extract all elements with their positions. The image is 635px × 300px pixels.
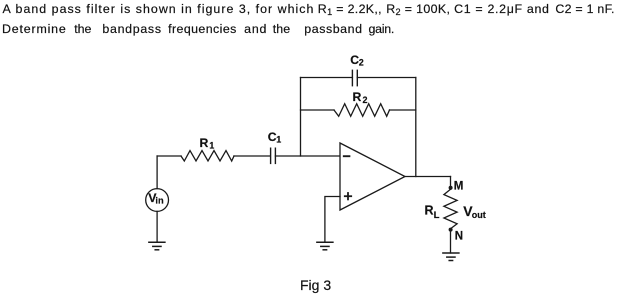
capacitor C1 <box>270 148 272 163</box>
wire: Vin top lead <box>156 156 158 189</box>
svg-text:Fig 3: Fig 3 <box>300 277 331 293</box>
wire: R2 right lead <box>390 109 416 111</box>
svg-text:the: the <box>273 22 290 36</box>
svg-text:L: L <box>434 210 440 221</box>
svg-text:A band pass filter is shown in: A band pass filter is shown in figure 3,… <box>3 2 315 16</box>
svg-text:R: R <box>200 136 209 150</box>
op-amp U1 triangle <box>340 143 405 210</box>
resistor R1 <box>181 151 234 161</box>
node N junction dot <box>449 228 453 232</box>
svg-text:frequencies: frequencies <box>168 22 237 36</box>
wire: output down to node M <box>450 177 452 190</box>
wire: C1 to op-amp inverting input <box>275 155 340 157</box>
svg-text:1: 1 <box>276 135 281 145</box>
wire: op-amp output <box>405 176 451 178</box>
svg-text:R2 = 100K,: R2 = 100K, <box>386 2 450 17</box>
svg-text:out: out <box>472 210 486 220</box>
wire: top branch to C2 <box>301 77 353 79</box>
wire: feedback right vertical <box>415 78 417 177</box>
resistor R2 <box>334 104 390 117</box>
svg-text:C1 = 2.2μF and: C1 = 2.2μF and <box>454 2 550 16</box>
ground G2 (below op-amp plus input) <box>317 242 333 250</box>
wire: feedback left vertical (node A) <box>300 78 302 157</box>
op-amp inverting input minus sign <box>344 155 350 157</box>
node M junction dot <box>449 186 453 190</box>
capacitor C2 <box>351 70 353 85</box>
wire: node N down to ground <box>450 229 452 253</box>
svg-text:N: N <box>455 230 463 242</box>
svg-text:R: R <box>425 203 434 217</box>
svg-text:C2 = 1 nF.: C2 = 1 nF. <box>555 2 614 16</box>
svg-text:R: R <box>353 90 362 104</box>
wire: main input wire left stub <box>157 155 181 157</box>
svg-text:M: M <box>454 180 464 192</box>
svg-text:the: the <box>74 22 91 36</box>
svg-text:in: in <box>155 196 164 206</box>
wire: Vin bottom lead <box>156 211 158 242</box>
wire: R2 left lead <box>301 109 335 111</box>
svg-text:bandpass: bandpass <box>102 22 161 36</box>
svg-text:1: 1 <box>209 140 214 150</box>
wire: non-inverting input lead <box>325 197 340 243</box>
wire: R1 to C1 <box>234 155 270 157</box>
svg-text:2: 2 <box>363 95 368 105</box>
svg-text:R1 = 2.2K,,: R1 = 2.2K,, <box>318 2 382 17</box>
svg-text:passband: passband <box>304 22 362 36</box>
ground G3 (below RL) <box>443 253 459 261</box>
ground G1 (below Vin) <box>149 242 165 250</box>
svg-text:and: and <box>244 22 267 36</box>
svg-text:2: 2 <box>359 58 364 68</box>
source Vin circle <box>146 189 169 212</box>
op-amp non-inverting input plus sign <box>345 195 351 197</box>
wire: C2 to right vertical <box>357 77 416 79</box>
resistor RL <box>444 189 457 228</box>
svg-text:Determine: Determine <box>2 22 67 36</box>
svg-text:gain.: gain. <box>369 22 395 36</box>
